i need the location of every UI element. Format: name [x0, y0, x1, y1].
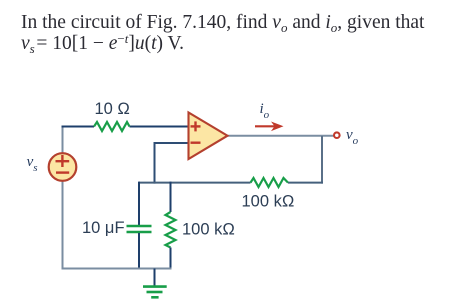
svg-text:100 kΩ: 100 kΩ	[242, 193, 295, 211]
svg-text:10 μF: 10 μF	[82, 219, 125, 237]
svg-text:vs: vs	[27, 154, 38, 174]
svg-text:vo: vo	[346, 127, 359, 147]
svg-text:100 kΩ: 100 kΩ	[182, 221, 235, 239]
svg-text:10 Ω: 10 Ω	[95, 100, 131, 118]
svg-text:io: io	[260, 101, 270, 121]
